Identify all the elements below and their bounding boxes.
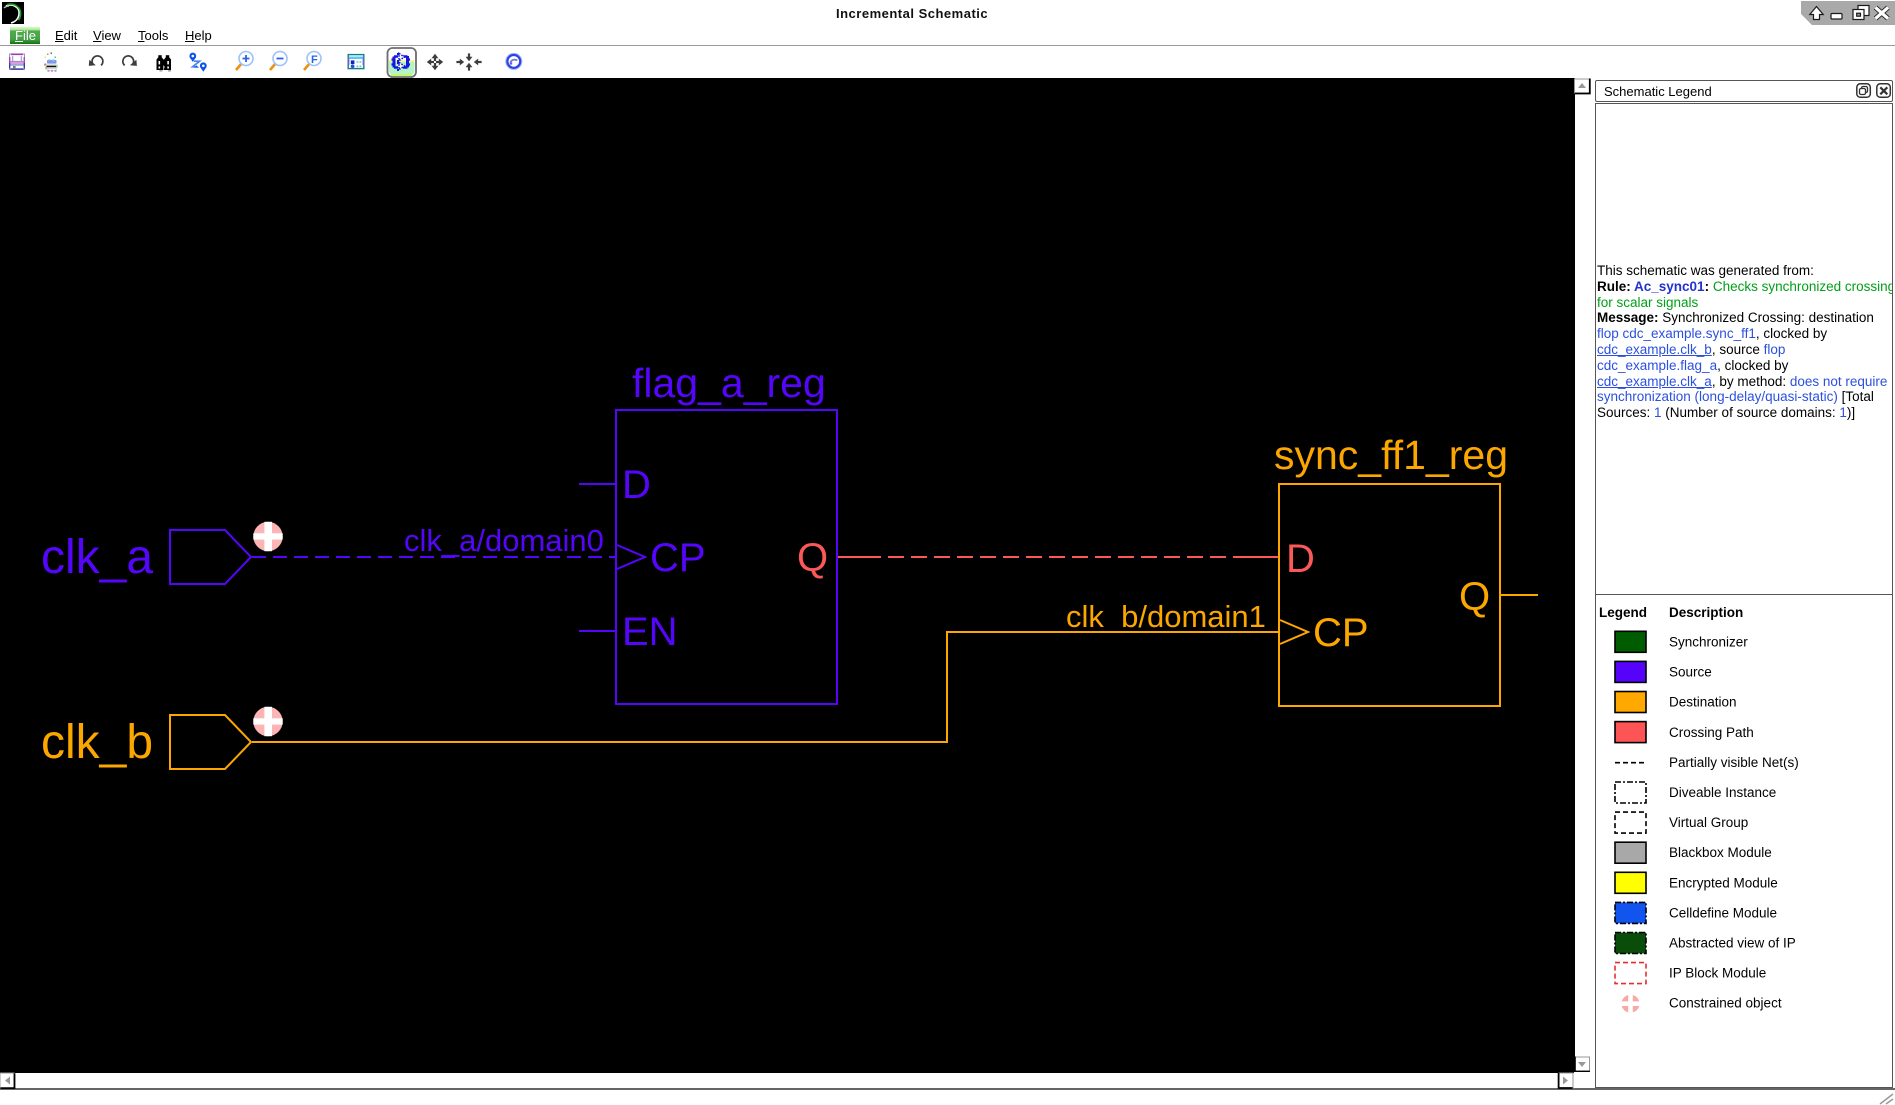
svg-text:Blackbox Module: Blackbox Module (1669, 845, 1772, 860)
svg-text:Virtual Group: Virtual Group (1669, 815, 1748, 830)
svg-text:Encrypted Module: Encrypted Module (1669, 875, 1778, 890)
svg-text:clk_a/domain0: clk_a/domain0 (404, 523, 604, 558)
svg-text:Source: Source (1669, 665, 1712, 680)
svg-text:D: D (1286, 537, 1315, 581)
svg-text:Crossing Path: Crossing Path (1669, 725, 1754, 740)
svg-text:Synchronizer: Synchronizer (1669, 635, 1748, 650)
svg-text:Diveable Instance: Diveable Instance (1669, 785, 1776, 800)
svg-text:Legend: Legend (1599, 605, 1647, 620)
svg-text:Constrained object: Constrained object (1669, 996, 1782, 1011)
svg-text:EN: EN (622, 610, 678, 654)
svg-text:Celldefine Module: Celldefine Module (1669, 905, 1777, 920)
svg-text:IP Block Module: IP Block Module (1669, 966, 1766, 981)
svg-text:clk_a: clk_a (41, 531, 153, 584)
svg-text:F: F (311, 54, 318, 66)
svg-text:CP: CP (650, 536, 706, 580)
svg-text:D: D (622, 463, 651, 507)
svg-text:CP: CP (1313, 611, 1369, 655)
svg-text:clk_b/domain1: clk_b/domain1 (1066, 599, 1266, 634)
svg-text:Destination: Destination (1669, 695, 1737, 710)
svg-text:Description: Description (1669, 605, 1743, 620)
svg-text:sync_ff1_reg: sync_ff1_reg (1274, 432, 1508, 478)
svg-text:Abstracted view of IP: Abstracted view of IP (1669, 936, 1796, 951)
svg-text:flag_a_reg: flag_a_reg (632, 360, 826, 406)
svg-text:Q: Q (1459, 575, 1490, 619)
svg-text:Q: Q (797, 536, 828, 580)
svg-text:clk_b: clk_b (41, 716, 153, 769)
svg-text:Partially visible Net(s): Partially visible Net(s) (1669, 755, 1799, 770)
